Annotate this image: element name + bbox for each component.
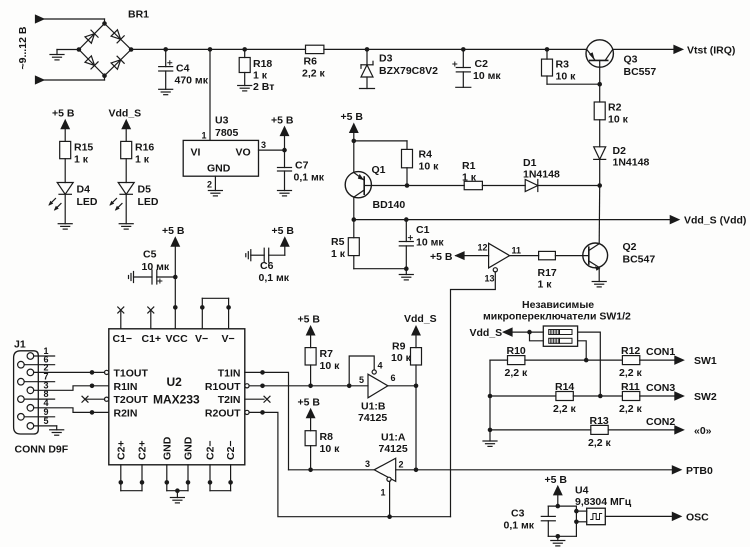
power Vdd_S arrow R9 [404,313,437,348]
terminal «0» [675,425,712,437]
svg-text:MAX233: MAX233 [153,393,200,407]
svg-text:OSC: OSC [686,512,709,524]
power +5V arrow Q1 [341,111,364,141]
wire R13 to 0 arrow [608,429,675,431]
resistor R17 [538,251,557,290]
power +5V arrow C6 [272,225,295,246]
svg-text:C2−: C2− [205,440,217,460]
IC U2 MAX233 [109,329,245,465]
svg-text:VO: VO [236,147,251,159]
wire U1:B output [388,385,416,387]
wire +5V to R4 [354,140,407,142]
power +5V arrow [271,115,294,151]
svg-text:Q2: Q2 [623,241,637,253]
svg-text:+5 В: +5 В [271,115,294,127]
wire pin 11 to R17 [510,255,539,257]
bridge rectifier BR1 [77,9,150,78]
svg-text:CON1: CON1 [646,346,675,358]
svg-text:R10: R10 [507,345,526,357]
resistor R11 [619,381,643,415]
svg-text:V−: V− [222,333,235,345]
svg-text:2,2 к: 2,2 к [553,403,577,415]
svg-text:2: 2 [399,460,404,470]
svg-text:1 к: 1 к [253,70,268,82]
svg-text:R17: R17 [538,267,557,279]
node enable pin1 [387,514,392,519]
svg-text:Vdd_S: Vdd_S [470,327,503,339]
wire main rail right [324,48,587,50]
wire R17 to Q2 base [555,255,588,257]
resistor R15 [60,141,94,182]
resistor R16 [121,141,155,182]
ground [58,224,72,229]
wire osc frame right [575,506,577,536]
capacitor C7 [278,150,325,190]
pin R1OUT circle [245,384,249,388]
wire osc frame top [548,505,576,507]
ground [399,269,413,280]
svg-text:10 мк: 10 мк [473,70,501,82]
svg-text:9,8304 МГц: 9,8304 МГц [575,496,632,508]
terminal SW2 [675,391,717,403]
svg-text:R1IN: R1IN [114,381,138,393]
transistor Q2 BC547 [583,186,656,282]
capacitor C5 [129,249,176,285]
svg-text:C2: C2 [475,58,489,70]
svg-text:R18: R18 [253,58,272,70]
node T1OUT [90,370,95,375]
svg-text:+5 В: +5 В [298,397,321,409]
svg-text:T1OUT: T1OUT [114,367,149,379]
resistor R10 [505,345,529,379]
svg-text:2,2 к: 2,2 к [302,68,326,80]
svg-text:1N4148: 1N4148 [613,157,650,169]
svg-text:R2IN: R2IN [114,407,138,419]
svg-text:R1OUT: R1OUT [205,381,241,393]
svg-text:11: 11 [512,246,522,256]
wire [44,79,105,81]
wire J1 pin1 stub [34,346,55,356]
node U3 input [208,47,213,52]
svg-text:R5: R5 [331,236,345,248]
svg-text:«0»: «0» [694,425,712,437]
svg-text:U1:A: U1:A [381,432,406,444]
svg-text:GND: GND [161,436,173,460]
svg-text:0,1 мк: 0,1 мк [259,272,290,284]
node +5V C7 [282,148,287,153]
node U4 power top [556,504,561,509]
wire T2IN stub with x [245,396,270,402]
svg-text:2,2 к: 2,2 к [588,437,612,449]
svg-text:R9: R9 [392,341,406,353]
svg-text:GND: GND [207,163,231,175]
svg-text:1 к: 1 к [331,248,346,260]
wire R12 to SW1 arrow [640,359,675,361]
svg-text:6: 6 [391,373,396,383]
node R3 [545,47,550,52]
node pin2 [414,468,419,473]
regulator U3 7805 [183,115,266,190]
svg-text:+5 В: +5 В [52,108,75,120]
wire U3 pin2 to ground [214,176,216,190]
svg-text:4: 4 [378,361,383,371]
ground [159,89,173,94]
buffer U1:D 74125 pins 12 11 13 [430,243,521,284]
svg-text:PTB0: PTB0 [686,465,713,477]
svg-text:R4: R4 [419,149,433,161]
capacitor C1 [399,220,444,269]
svg-text:R16: R16 [135,142,154,154]
pin stub C1+ with x [148,307,154,329]
wire J1 pin6 stub [24,355,54,365]
power +5V arrow R15 [52,108,75,142]
svg-text:C6: C6 [260,260,274,272]
pin pair C2+ bracket [119,465,145,491]
resistor R3 [542,49,577,84]
pin T2OUT circle [105,397,109,401]
svg-text:U4: U4 [575,485,589,497]
pin stub C1- with x [118,307,124,329]
wire R1OUT to buffer input [249,385,368,387]
svg-text:5: 5 [44,416,49,426]
svg-text:CONN D9F: CONN D9F [15,444,69,456]
resistor R8 [305,431,340,470]
node R14 left [488,394,493,399]
capacitor C6 [246,242,290,284]
node switch row2 branch [527,330,532,335]
svg-text:10 к: 10 к [608,114,629,126]
wire R1IN to J1 pin3 [34,386,109,391]
DIP switch SW1/2 [543,326,577,346]
svg-text:12: 12 [478,243,488,253]
svg-text:микропереключатели SW1/2: микропереключатели SW1/2 [483,311,631,323]
node C2 [461,47,466,52]
svg-text:CON3: CON3 [646,382,675,394]
svg-text:BZX79C8V2: BZX79C8V2 [379,65,438,77]
power +5V arrow R8 [298,397,321,431]
svg-text:R1: R1 [462,160,476,172]
svg-text:R13: R13 [590,415,609,427]
ground [208,191,222,196]
wire pin 13 enable route [451,272,496,517]
svg-text:7805: 7805 [215,127,239,139]
terminal Vdd_S (Vdd) [670,215,746,227]
capacitor C2 [453,49,502,87]
svg-text:VCC: VCC [166,333,189,345]
svg-text:R11: R11 [621,381,640,393]
svg-text:10 к: 10 к [320,443,341,455]
svg-text:D3: D3 [379,53,393,65]
svg-text:SW1: SW1 [694,355,717,367]
svg-text:10 к: 10 к [419,161,440,173]
svg-text:BD140: BD140 [373,199,406,211]
wire switch row2 to SW1 line [578,341,587,360]
svg-text:74125: 74125 [358,412,387,424]
wire R1 to D1 [482,185,525,187]
wire Vdd_S rail [354,219,675,221]
zener diode D3 BZX79C8V2 [360,49,439,88]
wire R2IN to J1 pin4 [34,408,109,413]
svg-text:LED: LED [77,196,98,208]
wire T1IN right [245,372,289,469]
input terminal AC top [36,15,44,22]
node R8 bottom [308,468,313,473]
node Q1 emitter [352,139,357,144]
resistor R14 [553,381,577,415]
resistor R5 [331,220,359,269]
svg-text:C2+: C2+ [115,440,127,460]
svg-text:R6: R6 [304,56,318,68]
svg-text:U1:B: U1:B [361,401,386,413]
svg-text:~9...12 В: ~9...12 В [17,26,29,69]
svg-text:5: 5 [359,375,364,385]
svg-text:D1: D1 [523,157,537,169]
power +5V arrow U4 [545,474,568,506]
node U4 ground bottom [556,534,561,539]
pin R2OUT circle [245,410,249,414]
svg-text:LED: LED [138,196,159,208]
ground [50,50,64,60]
svg-text:C1−: C1− [113,333,133,345]
transistor Q3 BC557 [586,40,656,84]
transistor Q1 BD140 [345,141,405,220]
resistor R7 [305,348,340,386]
svg-text:0,1 мк: 0,1 мк [504,520,535,532]
terminal SW1 [675,355,717,367]
wire R13 line [490,429,591,431]
svg-text:VI: VI [191,147,201,159]
ground [592,282,606,287]
pin T1OUT circle [105,370,109,374]
wire U1:A pin2 to PTB0 [396,469,675,471]
svg-text:T2IN: T2IN [218,394,241,406]
capacitor C3 [504,506,556,536]
node SW2 [598,394,603,399]
svg-text:Vtst (IRQ): Vtst (IRQ) [687,45,735,57]
power Vdd_S arrow switches [470,327,544,339]
node Q3 base [597,82,602,87]
node VCC pin [173,305,178,310]
svg-text:10 к: 10 к [556,71,577,83]
svg-text:1 к: 1 к [74,154,89,166]
node R1IN [90,384,95,389]
svg-text:Vdd_S (Vdd): Vdd_S (Vdd) [684,215,746,227]
svg-text:R8: R8 [320,431,334,443]
svg-text:+5 В: +5 В [272,225,295,237]
svg-text:3: 3 [261,140,266,150]
buffer U1:B 74125 pins 4 5 6 [347,356,396,424]
node D1 D2 Q2 [597,183,602,188]
resistor R1 [462,160,482,190]
svg-text:J1: J1 [14,339,26,351]
node C1 top [404,217,409,222]
svg-text:Vdd_S: Vdd_S [404,313,437,325]
svg-text:R7: R7 [320,348,334,360]
svg-text:C3: C3 [511,508,525,520]
svg-text:C2−: C2− [225,440,237,460]
svg-text:C1: C1 [416,224,430,236]
svg-text:GND: GND [183,436,195,460]
svg-text:1 к: 1 к [462,172,477,184]
oscillator U4 9.8304 MHz [574,485,632,525]
wire J1 pin5 to ground [34,416,57,430]
svg-text:CON2: CON2 [646,416,675,428]
wire J1 pin7 stub [24,372,54,382]
svg-text:+5 В: +5 В [545,474,568,486]
wire switch row1 to SW2 line [578,332,601,396]
diode D2 1N4148 [594,145,650,186]
terminal PTB0 [672,465,713,477]
svg-text:R2: R2 [608,102,622,114]
resistor R12 [619,345,643,379]
wire [44,18,105,20]
wire T2OUT stub with x [82,396,105,402]
svg-text:2 Вт: 2 Вт [253,81,274,93]
svg-text:Vdd_S: Vdd_S [109,108,142,120]
svg-text:D4: D4 [77,184,91,196]
svg-text:R12: R12 [621,345,640,357]
ground [50,430,64,435]
wire to switch row2 [530,332,544,341]
ground [170,498,184,503]
svg-text:0,1 мк: 0,1 мк [294,172,325,184]
svg-text:BR1: BR1 [128,9,149,21]
wire R10 line [490,359,508,361]
ground [551,536,565,546]
wire R5 bottom to C1 bottom [354,268,407,270]
svg-text:R3: R3 [556,59,570,71]
svg-text:10 мк: 10 мк [416,237,444,249]
svg-text:Q3: Q3 [624,54,638,66]
terminal OSC [672,512,709,524]
ground [119,224,133,229]
svg-text:V−: V− [195,333,208,345]
node R2IN [90,410,95,415]
svg-text:470 мк: 470 мк [175,75,209,87]
resistor R6 [302,45,326,79]
svg-text:+5 В: +5 В [430,251,453,263]
node SW1 [584,358,589,363]
ground [483,441,497,446]
wire U4 to OSC [605,515,674,517]
svg-text:Q1: Q1 [372,164,386,176]
connector J1 CONN D9F [14,339,69,456]
wire R3 to base node [547,83,600,85]
wire J1 pin8 stub [24,389,54,399]
resistor R18 [239,49,274,93]
svg-text:10 к: 10 к [320,360,341,372]
wire [57,49,79,51]
capacitor C4 [159,49,209,89]
pin pair GND bracket [165,465,191,498]
svg-text:3: 3 [365,459,370,469]
svg-text:C4: C4 [176,63,190,75]
wire R11 to SW2 arrow [640,395,675,397]
svg-text:Независимые: Независимые [522,299,594,311]
node C1 bottom [404,266,409,271]
wire osc frame bottom [548,535,576,537]
svg-text:T2OUT: T2OUT [114,394,149,406]
svg-text:U3: U3 [215,115,229,127]
node R9 bottom [414,384,419,389]
resistor R4 [402,141,440,186]
svg-text:D5: D5 [138,184,152,196]
node C5 VCC [173,275,178,280]
svg-text:1N4148: 1N4148 [523,169,560,181]
node R18 [242,47,247,52]
svg-text:C2+: C2+ [137,440,149,460]
svg-text:1: 1 [381,488,386,498]
pin pair C2- bracket [208,465,233,491]
resistor R13 [588,415,612,449]
svg-text:1: 1 [202,131,207,141]
wire R2OUT enable route [249,412,450,516]
terminal Vtst (IRQ) [674,45,735,57]
wire R10 to R12 [525,359,623,361]
svg-text:C7: C7 [295,160,309,172]
power +5V arrow R7 [298,314,321,348]
wire [104,19,106,24]
wire D1 to node [538,185,600,187]
wire PTB0 net vertical [415,386,417,470]
svg-text:D2: D2 [613,145,627,157]
svg-text:R2OUT: R2OUT [205,407,241,419]
wire U1:A input line [289,469,375,471]
wire rail to U3 VI [209,49,211,140]
svg-text:SW2: SW2 [694,391,717,403]
buffer U1:A 74125 pins 1 2 3 [365,432,408,517]
LED D4 [48,183,98,224]
svg-text:C5: C5 [143,249,157,261]
power +5V arrow VCC [162,225,185,329]
svg-text:+5 В: +5 В [341,111,364,123]
svg-text:74125: 74125 [379,443,408,455]
svg-text:BC557: BC557 [624,66,657,78]
svg-text:2,2 к: 2,2 к [619,403,643,415]
svg-text:C1+: C1+ [142,333,162,345]
node R4 bottom [405,183,410,188]
node D3 [365,47,370,52]
pin stubs V- bracket [200,298,231,329]
wire Q1 base to R1 [364,185,464,187]
wire to Vtst [613,48,675,50]
svg-text:2,2 к: 2,2 к [619,367,643,379]
svg-text:10 мк: 10 мк [142,261,170,273]
node R13 left [488,428,493,433]
power Vdd_S arrow R16 [109,108,142,142]
svg-text:2,2 к: 2,2 к [505,367,529,379]
wire [104,76,106,80]
node C4 [163,47,168,52]
wire main rail left [131,48,305,50]
wire switch ladder left vertical [489,360,491,441]
svg-text:+5 В: +5 В [162,225,185,237]
svg-text:T1IN: T1IN [218,367,241,379]
svg-text:2: 2 [207,180,212,190]
wire T1OUT to J1 pin2 [34,371,105,373]
ground [278,191,292,196]
svg-text:1 к: 1 к [538,279,553,291]
wire R14 to R11 [573,395,622,397]
LED D5 [109,183,159,224]
svg-text:BC547: BC547 [623,254,656,266]
diode D1 1N4148 [523,157,560,192]
svg-text:R14: R14 [555,381,574,393]
node Vdd_S left [352,217,357,222]
svg-text:U2: U2 [167,375,183,389]
resistor R9 [391,341,422,386]
svg-text:1 к: 1 к [135,154,150,166]
